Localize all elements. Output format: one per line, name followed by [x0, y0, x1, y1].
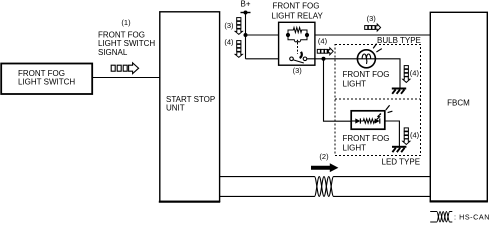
svg-text:LIGHT SWITCH: LIGHT SWITCH [98, 39, 155, 48]
svg-text:: HS-CAN: : HS-CAN [454, 212, 490, 221]
annotation (4): connector ref at bulb ground [403, 66, 420, 83]
svg-text:(4): (4) [410, 131, 420, 140]
box: FRONT FOG LIGHT SWITCH [1, 64, 92, 95]
svg-text:LIGHT SWITCH: LIGHT SWITCH [18, 77, 75, 86]
wire: coil supply to relay and on to FBCM [246, 34, 431, 36]
svg-text:FRONT FOG: FRONT FOG [98, 30, 145, 39]
relay coil with parallel resistor [288, 28, 307, 55]
svg-text:(4): (4) [318, 37, 328, 46]
wire: switch supply to relay [246, 58, 290, 60]
annotation (4): connector ref at LED ground [403, 128, 420, 145]
annotation (4): connector ref right of relay [317, 37, 333, 55]
svg-text:LED TYPE: LED TYPE [382, 158, 421, 167]
svg-text:LIGHT RELAY: LIGHT RELAY [272, 11, 324, 20]
svg-text:BULB TYPE: BULB TYPE [377, 36, 421, 45]
box: START STOP UNIT [159, 12, 220, 202]
ground (LED type) [392, 147, 406, 152]
svg-text:LIGHT: LIGHT [343, 80, 367, 89]
ground (bulb type) [392, 89, 406, 94]
label (1) front fog light switch signal [98, 18, 155, 57]
LED lamp assembly: FRONT FOG LIGHT (LED type) [343, 105, 393, 152]
dashed box: BULB TYPE [335, 36, 421, 156]
wire: bulb to ground [375, 59, 400, 88]
svg-text:(3): (3) [367, 14, 377, 23]
svg-text:(3): (3) [224, 21, 234, 30]
box: FBCM [430, 12, 488, 201]
svg-text:(4): (4) [224, 37, 234, 46]
bulb: FRONT FOG LIGHT (bulb type) [343, 44, 390, 89]
svg-text:FRONT FOG: FRONT FOG [343, 134, 390, 143]
light rays [386, 105, 390, 110]
B+ terminal [241, 0, 251, 15]
svg-text:FRONT FOG: FRONT FOG [343, 70, 390, 79]
wire: B+ vertical feed [245, 13, 247, 59]
legend: HS-CAN twisted pair symbol [430, 212, 452, 223]
svg-text:FRONT FOG: FRONT FOG [273, 2, 320, 11]
LED D2 [375, 118, 380, 123]
svg-text:SIGNAL: SIGNAL [98, 48, 128, 57]
resistor [360, 119, 375, 123]
wire: branch down to LED type lamp [324, 59, 352, 121]
wire: LED to ground [385, 121, 399, 146]
svg-text:(3): (3) [293, 66, 303, 75]
svg-text:(2): (2) [319, 152, 329, 161]
svg-text:B+: B+ [241, 0, 251, 9]
svg-text:UNIT: UNIT [166, 104, 185, 113]
relay switch contact [290, 52, 307, 63]
wire: relay switch output [307, 58, 358, 60]
annotation (3): connector ref on wire to FBCM [365, 14, 381, 31]
connector symbol (1): three squares + open arrow right [111, 63, 138, 74]
svg-text:(1): (1) [121, 18, 131, 27]
svg-text:(4): (4) [410, 68, 420, 77]
svg-text:LIGHT: LIGHT [343, 144, 367, 153]
relay: FRONT FOG LIGHT RELAY box [272, 2, 324, 75]
wire: switch to start stop unit [92, 77, 159, 79]
svg-text:FBCM: FBCM [447, 98, 470, 107]
junction dot to LED branch [322, 57, 326, 61]
HS-CAN twisted pair wires: start stop unit to FBCM [220, 177, 431, 197]
junction dot at coil branch [244, 33, 248, 37]
annotation (3): fuse ref squares + down arrow [224, 18, 242, 35]
diode D1 [355, 118, 360, 123]
dashed box: LED TYPE [335, 99, 421, 167]
annotation (4): fuse ref squares + down arrow [224, 37, 242, 57]
label (2) with thick arrow [311, 152, 338, 172]
